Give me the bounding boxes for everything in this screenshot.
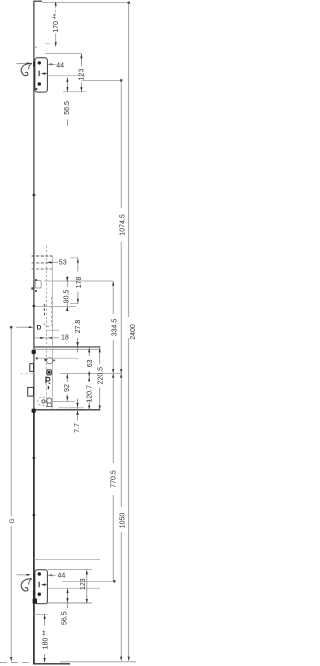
svg-text:27.8: 27.8 xyxy=(75,320,82,334)
svg-text:123: 123 xyxy=(80,578,87,590)
svg-text:56.5: 56.5 xyxy=(64,101,71,115)
svg-text:123: 123 xyxy=(79,69,86,81)
svg-text:220.5: 220.5 xyxy=(98,367,105,385)
svg-text:1050: 1050 xyxy=(119,513,126,529)
svg-text:44: 44 xyxy=(56,62,64,69)
svg-text:18: 18 xyxy=(61,335,69,342)
svg-text:334.5: 334.5 xyxy=(111,319,118,337)
svg-text:180 **: 180 ** xyxy=(43,630,50,649)
svg-text:44: 44 xyxy=(58,573,66,580)
svg-text:53: 53 xyxy=(59,260,67,267)
svg-text:7.7: 7.7 xyxy=(74,423,81,433)
svg-text:1074.5: 1074.5 xyxy=(119,214,126,236)
svg-text:90.5: 90.5 xyxy=(64,289,71,303)
svg-text:770.5: 770.5 xyxy=(110,470,117,488)
svg-text:56.5: 56.5 xyxy=(61,611,68,625)
svg-text:92: 92 xyxy=(64,384,71,392)
svg-text:G: G xyxy=(9,518,16,523)
svg-text:170 **: 170 ** xyxy=(53,13,60,32)
svg-text:178: 178 xyxy=(76,276,83,288)
svg-text:63: 63 xyxy=(87,359,94,367)
svg-text:2400: 2400 xyxy=(130,324,136,340)
svg-text:D: D xyxy=(37,325,42,332)
svg-text:120.7: 120.7 xyxy=(87,385,94,403)
